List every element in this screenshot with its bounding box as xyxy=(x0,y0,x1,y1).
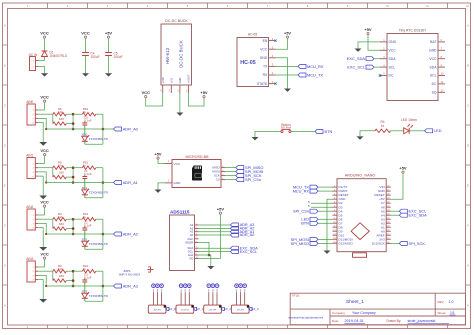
wire xyxy=(102,271,104,301)
svg-text:SCL: SCL xyxy=(430,74,437,78)
svg-text:DC: DC xyxy=(432,82,437,86)
microSD card icon xyxy=(192,166,202,181)
svg-text:C: C xyxy=(4,106,6,108)
svg-text:10: 10 xyxy=(386,6,389,8)
svg-text:6: 6 xyxy=(308,204,310,208)
wire xyxy=(276,65,299,67)
wire xyxy=(188,93,204,106)
ground xyxy=(82,73,89,76)
connector J EX_2 body xyxy=(204,305,222,313)
wire xyxy=(102,219,104,249)
svg-text:G: G xyxy=(4,266,6,268)
junction xyxy=(72,279,75,282)
wire xyxy=(199,224,231,226)
svg-text:VD: VD xyxy=(189,256,193,260)
svg-text:2: 2 xyxy=(33,66,35,68)
pin 2 GND xyxy=(165,182,172,184)
svg-text:1: 1 xyxy=(32,267,34,269)
label SPI_SCK xyxy=(399,241,407,245)
svg-text:F: F xyxy=(467,226,469,228)
svg-text:SPI_CSn: SPI_CSn xyxy=(245,177,261,182)
svg-text:180: 180 xyxy=(59,117,64,121)
wire xyxy=(66,228,73,230)
wire xyxy=(199,255,211,266)
wire xyxy=(72,271,74,286)
pin 2 GND xyxy=(179,85,181,93)
svg-text:CS: CS xyxy=(216,178,220,182)
test point xyxy=(211,284,215,288)
ground xyxy=(207,266,214,269)
wire xyxy=(38,270,53,272)
svg-text:VCC: VCC xyxy=(81,31,90,36)
svg-text:2: 2 xyxy=(32,114,34,116)
wire xyxy=(208,293,210,305)
nano usb rectangle xyxy=(353,253,367,257)
label EX_2 xyxy=(221,307,224,310)
svg-text:1: 1 xyxy=(32,215,34,217)
svg-text:VCC: VCC xyxy=(260,47,268,51)
wire xyxy=(84,141,86,144)
wire xyxy=(161,293,163,305)
svg-text:VCC: VCC xyxy=(40,148,49,153)
svg-text:180: 180 xyxy=(59,170,64,174)
svg-text:3: 3 xyxy=(32,118,34,120)
svg-text:Sheet:: Sheet: xyxy=(438,311,447,315)
svg-text:VCC: VCC xyxy=(40,200,49,205)
svg-text:D13/SCK: D13/SCK xyxy=(372,242,386,246)
svg-text:SPI_SCK: SPI_SCK xyxy=(409,241,426,246)
wire xyxy=(84,298,86,301)
svg-text:BTN: BTN xyxy=(301,221,309,226)
wire xyxy=(66,113,73,115)
wire xyxy=(38,214,44,216)
svg-text:180: 180 xyxy=(59,274,64,278)
svg-text:H: H xyxy=(4,306,6,308)
svg-text:REV:: REV: xyxy=(438,300,445,304)
pin 1 VCC xyxy=(165,163,172,165)
label BTN xyxy=(315,130,323,134)
wire xyxy=(236,293,238,305)
capacitor C5 100uF xyxy=(105,52,112,54)
test point xyxy=(188,284,192,288)
svg-text:2: 2 xyxy=(32,168,34,170)
svg-text:JST-PH: JST-PH xyxy=(181,309,189,311)
svg-text:SDA: SDA xyxy=(430,65,438,69)
test point xyxy=(179,284,183,288)
junction xyxy=(72,166,75,169)
wire xyxy=(391,130,404,132)
svg-text:DC: DC xyxy=(389,74,394,78)
wire xyxy=(96,113,103,115)
svg-text:EX_1: EX_1 xyxy=(196,307,203,311)
svg-text:3: 3 xyxy=(169,89,171,93)
svg-text:+5V: +5V xyxy=(364,27,372,32)
svg-text:1: 1 xyxy=(33,60,35,62)
wire xyxy=(225,175,236,177)
svg-text:100uF: 100uF xyxy=(91,55,100,59)
svg-text:4: 4 xyxy=(32,280,34,282)
junction xyxy=(72,233,75,236)
svg-text:MCU_RX: MCU_RX xyxy=(293,189,310,194)
pin 1 +VOUT xyxy=(187,85,189,93)
wire xyxy=(66,270,73,272)
wire xyxy=(66,167,73,169)
svg-text:GND: GND xyxy=(174,181,182,185)
svg-text:2019-04-01: 2019-04-01 xyxy=(345,319,364,323)
junction xyxy=(72,227,75,230)
wire xyxy=(84,246,86,249)
svg-text:1N4007RLG: 1N4007RLG xyxy=(50,54,68,58)
test point xyxy=(207,284,211,288)
svg-text:GND: GND xyxy=(429,49,437,53)
wire xyxy=(199,234,231,236)
wire xyxy=(180,293,182,305)
label ADR_A2 xyxy=(114,232,122,236)
wire xyxy=(38,172,46,183)
svg-text:4: 4 xyxy=(32,228,34,230)
svg-text:C: C xyxy=(467,106,469,108)
wire xyxy=(199,214,221,258)
label MCU_TX xyxy=(298,73,306,77)
svg-text:VCC: VCC xyxy=(40,31,49,36)
junction xyxy=(72,176,75,179)
junction xyxy=(72,285,75,288)
wire xyxy=(66,176,73,178)
svg-text:ADR_A0: ADR_A0 xyxy=(240,233,255,237)
svg-text:SPI_MISO: SPI_MISO xyxy=(291,241,309,246)
wire xyxy=(391,242,400,244)
svg-text:VCC: VCC xyxy=(429,57,437,61)
ground xyxy=(357,136,364,139)
label ADR_A3 xyxy=(114,284,122,288)
wire xyxy=(184,293,186,305)
wire xyxy=(291,131,316,133)
wire xyxy=(39,60,45,62)
svg-text:EX_0: EX_0 xyxy=(168,307,175,311)
label EXC_SCL xyxy=(399,209,407,213)
svg-text:MCU_RX: MCU_RX xyxy=(307,64,324,69)
svg-text:9: 9 xyxy=(347,6,349,8)
svg-text:E: E xyxy=(467,186,469,188)
svg-text:EXC_SCL: EXC_SCL xyxy=(240,249,259,254)
svg-text:EX_3: EX_3 xyxy=(252,307,259,311)
svg-text:+5V: +5V xyxy=(399,166,407,171)
wire xyxy=(66,218,73,220)
test point xyxy=(152,284,156,288)
svg-text:Date:: Date: xyxy=(332,319,339,323)
label SPI_MISO xyxy=(236,166,244,170)
wire xyxy=(146,93,163,106)
wire xyxy=(38,223,46,234)
svg-text:1: 1 xyxy=(32,163,34,165)
wire xyxy=(391,173,403,199)
wire xyxy=(199,242,210,255)
svg-text:SQ: SQ xyxy=(432,91,437,95)
junction xyxy=(102,233,105,236)
svg-text:HW-613: HW-613 xyxy=(165,47,170,64)
wire xyxy=(276,58,288,89)
svg-text:5: 5 xyxy=(308,200,310,204)
wire xyxy=(225,171,236,173)
svg-text:Tiny RTC DS1307: Tiny RTC DS1307 xyxy=(399,28,426,32)
wire xyxy=(52,219,54,228)
svg-text:5: 5 xyxy=(187,6,189,8)
svg-text:TZX0NBS-TR: TZX0NBS-TR xyxy=(89,294,109,298)
wire xyxy=(38,113,53,115)
svg-text:3: 3 xyxy=(32,275,34,277)
svg-text:TZX0NBS-TR: TZX0NBS-TR xyxy=(89,137,109,141)
wire xyxy=(216,293,218,305)
svg-text:3: 3 xyxy=(32,172,34,174)
wire xyxy=(188,293,190,305)
svg-text:ADR_A0: ADR_A0 xyxy=(123,126,139,131)
svg-text:ADDR: ADDR xyxy=(185,240,193,244)
wire xyxy=(318,242,333,244)
wire xyxy=(38,228,43,247)
svg-text:ADR_A2: ADR_A2 xyxy=(123,231,138,236)
svg-text:D12/MISO: D12/MISO xyxy=(339,241,354,245)
svg-text:7: 7 xyxy=(267,6,269,8)
wire xyxy=(311,206,333,208)
label SPI_CSn xyxy=(236,178,244,182)
svg-text:1: 1 xyxy=(27,6,29,8)
wire xyxy=(358,42,380,49)
ground xyxy=(39,247,47,251)
svg-text:HC-05: HC-05 xyxy=(248,32,257,36)
svg-text:1/1: 1/1 xyxy=(450,311,455,315)
svg-text:MCU_TX: MCU_TX xyxy=(307,73,323,78)
label EX_0 xyxy=(166,307,169,310)
svg-text:DC-DC BUCK: DC-DC BUCK xyxy=(165,19,188,23)
wire xyxy=(255,132,281,138)
wire xyxy=(38,123,43,142)
junction xyxy=(72,181,75,184)
nano diamond mark xyxy=(351,223,369,240)
svg-text:ARDUINO_NANO: ARDUINO_NANO xyxy=(345,173,376,177)
svg-text:+5V: +5V xyxy=(217,207,225,212)
svg-text:E: E xyxy=(4,186,6,188)
svg-text:HC-05: HC-05 xyxy=(240,60,256,66)
svg-text:+VOUT: +VOUT xyxy=(187,74,191,83)
svg-text:SPI_CSn: SPI_CSn xyxy=(293,209,309,214)
wire xyxy=(152,293,154,305)
wire xyxy=(158,183,165,190)
svg-text:A: A xyxy=(467,25,469,28)
wire xyxy=(38,280,43,299)
wire xyxy=(102,114,104,144)
test point xyxy=(239,284,243,288)
svg-text:3: 3 xyxy=(32,223,34,225)
wire xyxy=(46,128,113,130)
svg-text:BAT: BAT xyxy=(430,40,436,44)
wire xyxy=(44,102,46,110)
wire xyxy=(66,123,73,125)
wire xyxy=(318,190,333,192)
ground xyxy=(284,89,291,92)
ground xyxy=(39,299,47,303)
label ADR_A0 xyxy=(230,233,238,237)
wire xyxy=(276,38,288,49)
svg-text:H: H xyxy=(467,306,469,308)
svg-text:2: 2 xyxy=(177,89,179,93)
junction xyxy=(72,128,75,131)
svg-text:+5V: +5V xyxy=(200,90,208,95)
svg-text:LED: LED xyxy=(434,128,442,133)
junction xyxy=(72,218,75,221)
wire xyxy=(38,163,44,165)
label ADR_A0 xyxy=(114,127,122,131)
wire xyxy=(318,210,333,212)
svg-text:A: A xyxy=(4,25,6,28)
wire xyxy=(46,233,113,235)
svg-text:4: 4 xyxy=(147,6,149,8)
label SPI_MOSI xyxy=(236,170,244,174)
test point xyxy=(235,284,239,288)
junction xyxy=(102,128,105,131)
label SPI_SCK xyxy=(236,174,244,178)
wire xyxy=(52,168,54,177)
wire xyxy=(108,38,110,53)
svg-text:D: D xyxy=(4,146,6,148)
svg-text:ADR_A1: ADR_A1 xyxy=(123,180,138,185)
ground xyxy=(176,113,183,116)
svg-text:VCC: VCC xyxy=(389,49,397,53)
label EXC_SDA xyxy=(230,246,238,250)
junction xyxy=(72,113,75,116)
svg-text:D: D xyxy=(467,146,469,148)
svg-text:BTN: BTN xyxy=(325,129,333,134)
svg-text:2: 2 xyxy=(67,6,69,8)
svg-text:VCC: VCC xyxy=(141,90,150,95)
wire xyxy=(318,222,333,224)
wire xyxy=(46,285,113,287)
junction xyxy=(72,270,75,273)
wire xyxy=(391,214,400,216)
pin 3 +VO xyxy=(170,85,172,93)
wire xyxy=(38,266,44,268)
wire xyxy=(360,131,375,137)
svg-text:+5V: +5V xyxy=(284,31,292,36)
wire xyxy=(44,57,46,61)
svg-text:DC-DC BUCK: DC-DC BUCK xyxy=(179,40,184,68)
label EX_1 xyxy=(193,307,196,310)
svg-text:RX: RX xyxy=(263,73,268,77)
svg-text:1.0: 1.0 xyxy=(449,300,454,304)
test point xyxy=(160,284,164,288)
svg-text:www.kicad-eda.org/schematic-li: www.kicad-eda.org/schematic-link xyxy=(289,316,324,319)
capacitor C4 100uF xyxy=(82,52,89,54)
svg-text:JST-PH: JST-PH xyxy=(209,309,217,311)
wire xyxy=(38,275,46,286)
ground xyxy=(39,196,47,200)
wire xyxy=(391,210,400,212)
junction xyxy=(102,285,105,288)
wire xyxy=(84,195,86,198)
wire xyxy=(66,280,73,282)
svg-text:F: F xyxy=(4,226,6,228)
label EXC_SCL xyxy=(230,250,238,254)
wire xyxy=(38,218,53,220)
wire xyxy=(85,143,103,145)
wire xyxy=(85,300,103,302)
wire xyxy=(72,168,74,183)
wire xyxy=(44,259,46,267)
ground xyxy=(105,73,112,76)
wire xyxy=(52,271,54,280)
label ADR_A2 xyxy=(230,226,238,230)
svg-text:VCC: VCC xyxy=(40,252,49,257)
wire xyxy=(368,35,380,51)
test point xyxy=(215,284,219,288)
svg-text:TX: TX xyxy=(263,65,268,69)
wire xyxy=(327,199,333,250)
svg-text:Your Company: Your Company xyxy=(352,311,376,315)
svg-text:VCC: VCC xyxy=(174,162,181,166)
svg-text:ADS1115: ADS1115 xyxy=(170,209,190,214)
junction xyxy=(72,122,75,125)
test point xyxy=(183,284,187,288)
label ADR_A3 xyxy=(230,223,238,227)
svg-text:Company:: Company: xyxy=(332,311,346,315)
svg-text:TZX0NBS-TR: TZX0NBS-TR xyxy=(89,190,109,194)
svg-text:EN: EN xyxy=(263,39,268,43)
wire xyxy=(244,293,246,305)
wire xyxy=(38,109,44,111)
wire xyxy=(38,176,43,195)
connector J EX_3 body xyxy=(231,305,249,313)
no-connect xyxy=(274,40,276,42)
svg-text:6: 6 xyxy=(227,6,229,8)
test point xyxy=(243,284,247,288)
junction xyxy=(208,254,211,257)
no-connect xyxy=(274,83,276,85)
wire xyxy=(38,118,46,129)
wire xyxy=(39,67,45,74)
svg-text:4: 4 xyxy=(32,176,34,178)
wire xyxy=(212,293,214,305)
wire xyxy=(199,247,231,249)
wire xyxy=(72,114,74,129)
wire xyxy=(318,218,333,220)
svg-text:JMP 3 NO-0603: JMP 3 NO-0603 xyxy=(119,273,141,277)
svg-text:+5V: +5V xyxy=(154,152,162,157)
svg-text:1: 1 xyxy=(168,161,170,163)
label MCU_RX xyxy=(298,64,306,68)
wire xyxy=(44,156,46,164)
wire xyxy=(46,182,113,184)
svg-text:GND: GND xyxy=(389,40,397,44)
wire xyxy=(85,38,87,53)
svg-text:G: G xyxy=(467,266,469,268)
svg-text:LED 10mm: LED 10mm xyxy=(401,118,417,122)
ground xyxy=(324,251,331,254)
svg-text:1: 1 xyxy=(32,110,34,112)
svg-text:VCC: VCC xyxy=(40,95,49,100)
wire xyxy=(179,93,181,113)
svg-text:STATE: STATE xyxy=(257,82,268,86)
svg-text:2: 2 xyxy=(168,181,170,183)
wire xyxy=(96,218,103,220)
svg-text:12: 12 xyxy=(466,6,469,8)
wire xyxy=(44,207,46,215)
svg-text:GND: GND xyxy=(178,77,182,83)
junction xyxy=(45,285,47,287)
svg-text:stole_jovanovski: stole_jovanovski xyxy=(408,319,436,323)
wire xyxy=(102,168,104,198)
svg-text:3: 3 xyxy=(107,6,109,8)
diode D1 1N4007RLG xyxy=(42,50,48,52)
junction xyxy=(45,128,47,130)
